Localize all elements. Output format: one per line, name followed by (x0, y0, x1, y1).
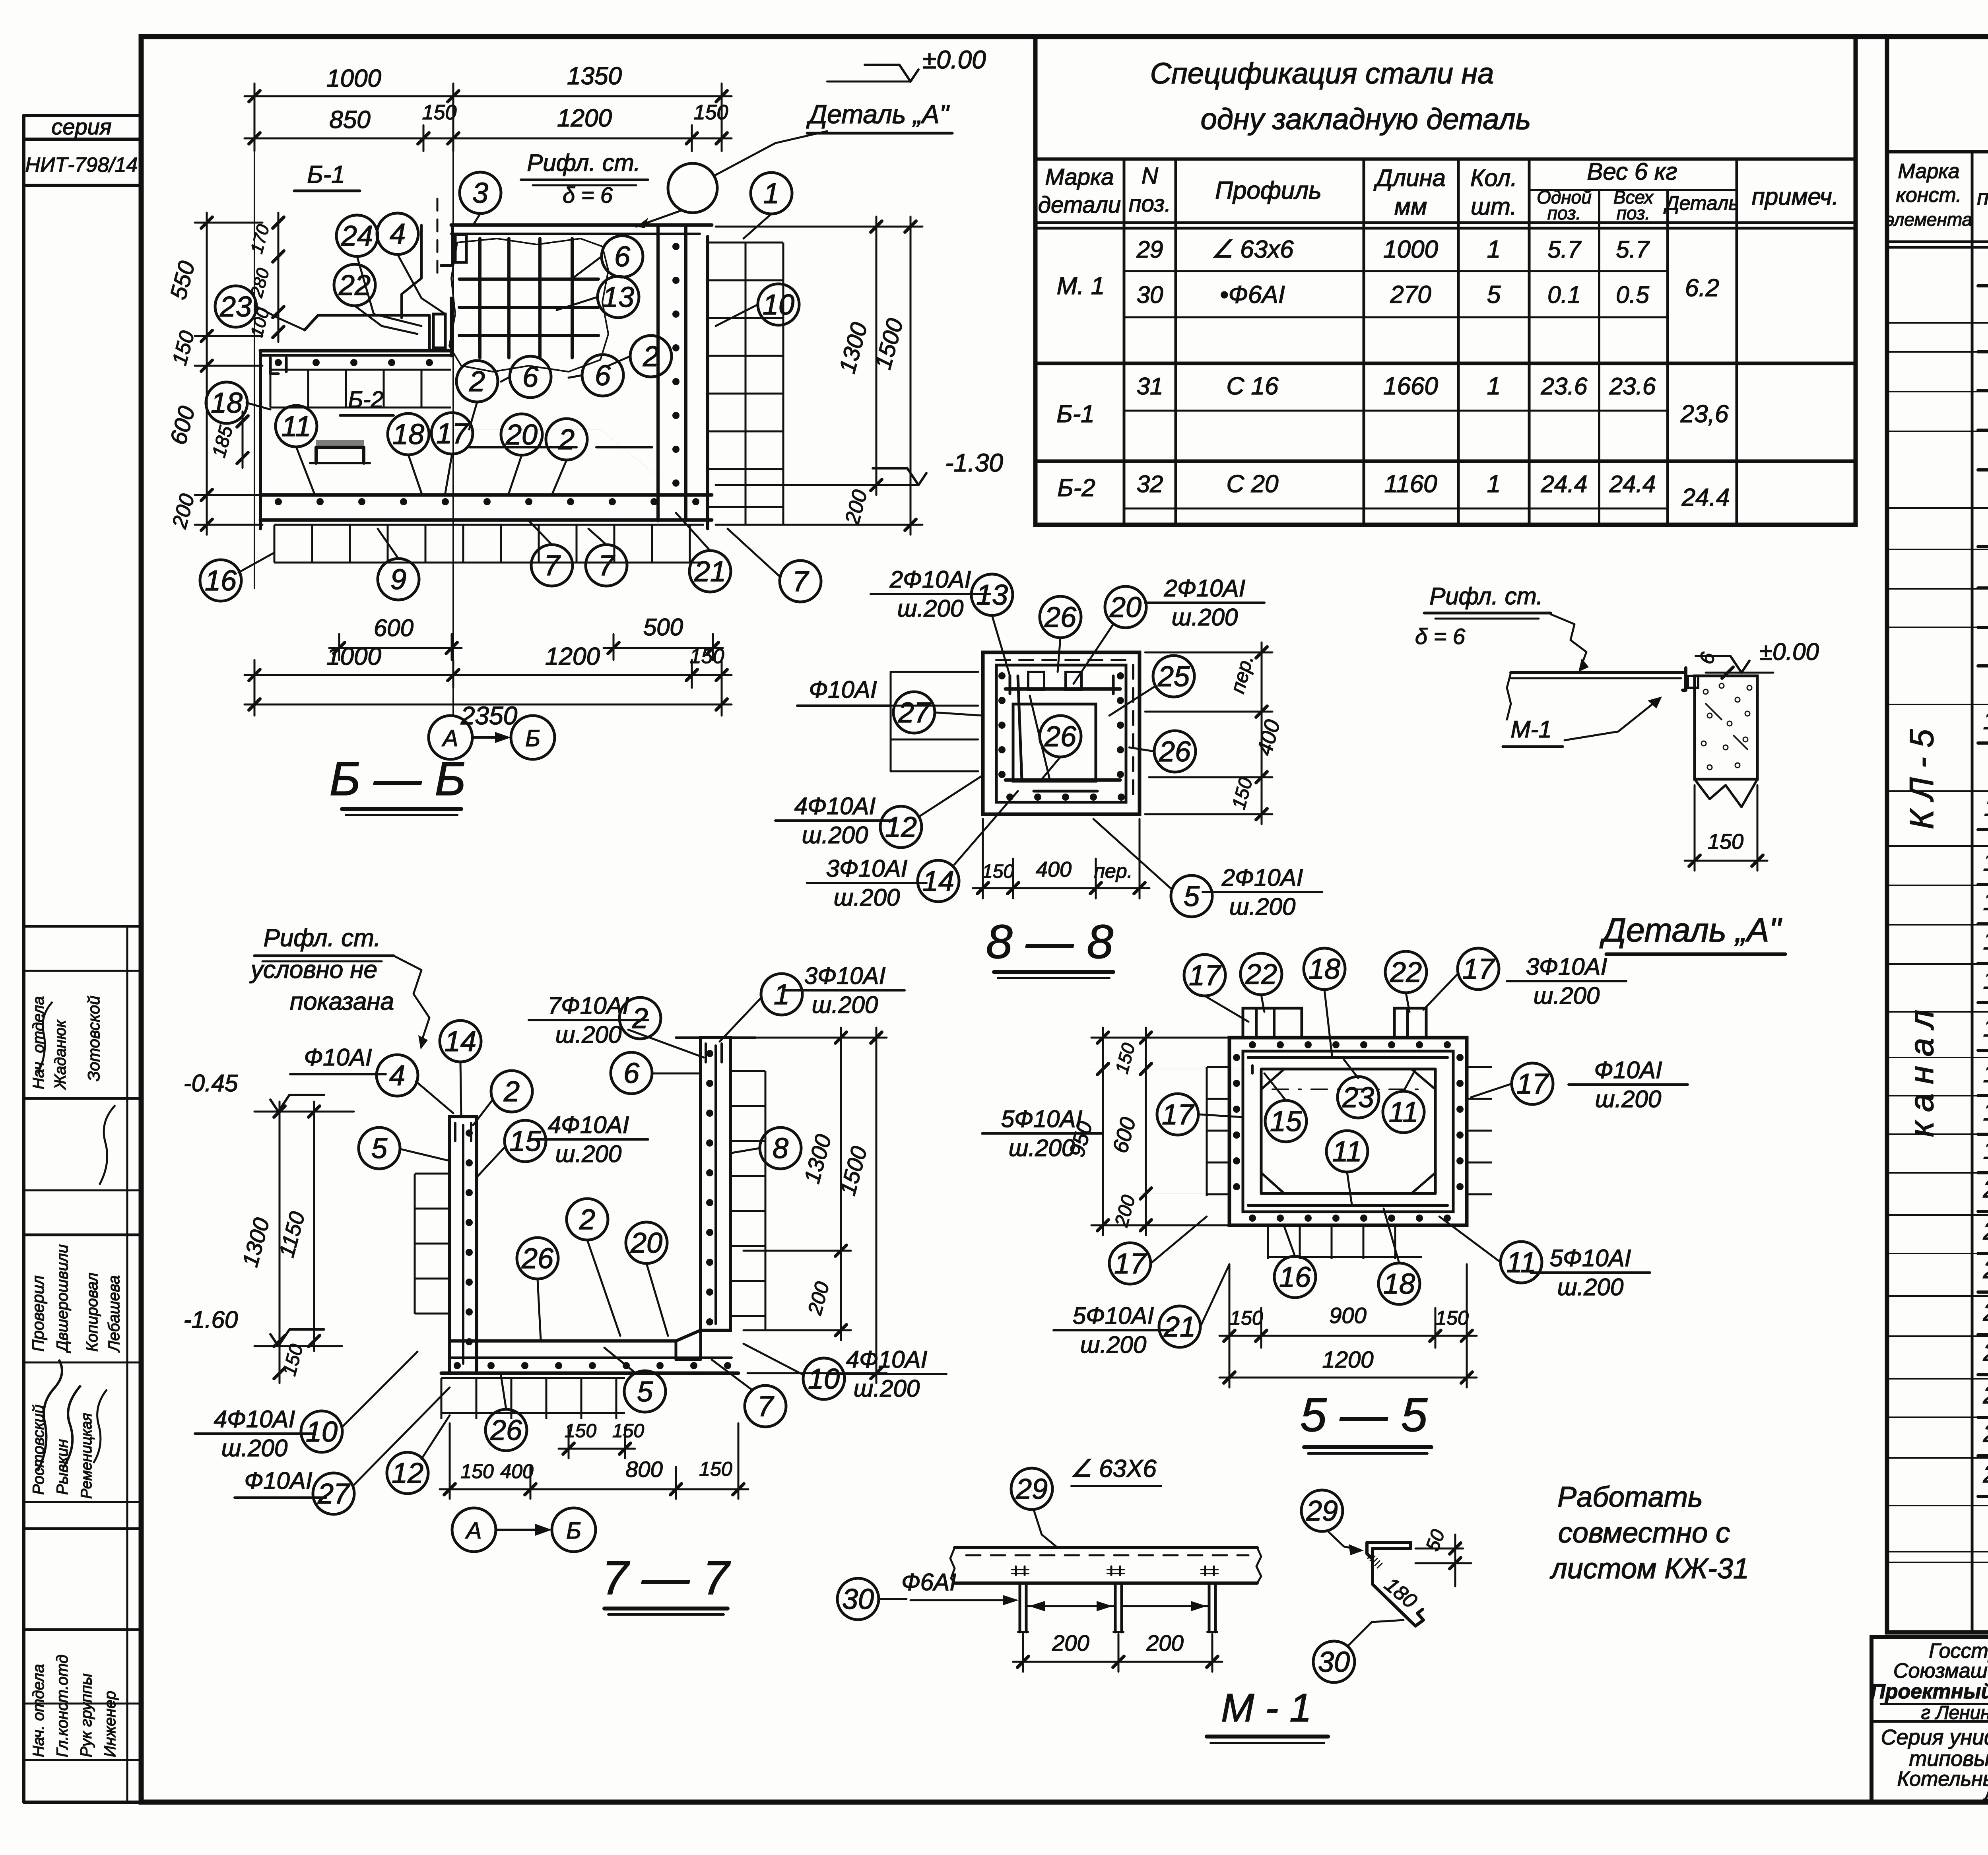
svg-text:13: 13 (602, 281, 634, 313)
svg-text:30: 30 (1318, 1646, 1350, 1678)
5-5 callouts (1184, 955, 1225, 996)
left shelf top (305, 315, 429, 350)
svg-text:30: 30 (1137, 281, 1163, 308)
svg-text:11: 11 (1332, 1136, 1362, 1168)
svg-text:5Ф10АI: 5Ф10АI (1073, 1302, 1154, 1329)
left element hooks (270, 358, 278, 374)
slab hatch below (274, 525, 704, 563)
svg-text:Гл.конст.отд: Гл.конст.отд (54, 1655, 71, 1757)
svg-text:Б: Б (525, 726, 540, 751)
svg-text:1: 1 (1487, 373, 1501, 400)
interior step lines (451, 429, 658, 477)
7-7 bottom dims (440, 1488, 540, 1490)
svg-text:δ = 6: δ = 6 (563, 182, 613, 208)
mesh grid rifl steel (478, 239, 481, 358)
svg-text:2: 2 (643, 341, 659, 373)
5-5 bottom hatch (1268, 1225, 1422, 1259)
bottom interior ties (469, 446, 577, 448)
svg-text:детали: детали (1038, 192, 1121, 218)
svg-text:7: 7 (544, 550, 561, 582)
svg-text:10: 10 (1983, 707, 1988, 735)
svg-text:6.2: 6.2 (1685, 274, 1719, 302)
svg-text:ш.200: ш.200 (812, 992, 878, 1018)
svg-text:270: 270 (1390, 281, 1431, 309)
7-7 right wall rebar (714, 1046, 717, 1324)
svg-text:5 — 5: 5 — 5 (1300, 1388, 1428, 1442)
detail A level mark (1696, 656, 1741, 673)
svg-text:Нач. отдела: Нач. отдела (30, 1664, 47, 1757)
svg-text:1000: 1000 (326, 643, 381, 670)
svg-text:типовых проектов: типовых проектов (1909, 1747, 1988, 1771)
svg-text:δ = 6: δ = 6 (1415, 624, 1466, 649)
svg-text:Двшерошвили: Двшерошвили (54, 1244, 71, 1353)
svg-text:ш.200: ш.200 (1595, 1086, 1662, 1112)
svg-text:Рывкин: Рывкин (54, 1439, 71, 1495)
left dims 550 150 600 200 (206, 213, 208, 535)
7-7 bottom slab (450, 1330, 701, 1341)
svg-text:1160: 1160 (1384, 470, 1437, 498)
svg-text:17: 17 (1162, 1099, 1195, 1131)
dimension line 850 150 1200 150 (245, 138, 732, 140)
svg-text:5.7: 5.7 (1547, 236, 1582, 263)
svg-text:29: 29 (1015, 1473, 1048, 1505)
svg-text:N: N (1142, 163, 1158, 189)
svg-text:500: 500 (643, 614, 683, 640)
8-8 outer box (983, 652, 1140, 814)
svg-text:14: 14 (1983, 927, 1988, 955)
detail A angle (1683, 668, 1686, 690)
svg-text:1200: 1200 (557, 105, 612, 132)
svg-text:совместно с: совместно с (1558, 1517, 1730, 1549)
7-7 left hatch (415, 1174, 450, 1314)
svg-text:200: 200 (1052, 1630, 1089, 1655)
svg-text:2: 2 (503, 1076, 520, 1108)
svg-text:20: 20 (1983, 1176, 1988, 1203)
svg-text:Работать: Работать (1557, 1481, 1703, 1513)
left strip outer (22, 115, 25, 1802)
svg-text:150: 150 (1708, 830, 1743, 854)
svg-text:24.4: 24.4 (1541, 471, 1588, 497)
svg-text:900: 900 (1329, 1303, 1366, 1328)
svg-text:23: 23 (1342, 1082, 1374, 1114)
svg-text:шт.: шт. (1471, 193, 1517, 220)
svg-text:22: 22 (1390, 957, 1422, 988)
svg-text:ш.200: ш.200 (1172, 604, 1238, 631)
5-5 inner chamfers (1261, 1069, 1284, 1089)
hook detail (1301, 1490, 1343, 1531)
svg-text:Зотовской: Зотовской (84, 995, 103, 1081)
svg-text:Ф10АI: Ф10АI (304, 1044, 372, 1071)
svg-text:18: 18 (1383, 1268, 1415, 1300)
svg-text:27: 27 (1983, 1461, 1988, 1488)
svg-text:ш.200: ш.200 (1534, 982, 1600, 1009)
right spec table (1887, 37, 1988, 1632)
svg-text:М - 1: М - 1 (1221, 1686, 1312, 1730)
title block (1872, 1637, 1988, 1802)
hook hatch small (1368, 1554, 1373, 1558)
svg-text:150: 150 (694, 101, 728, 124)
7-7 right hatch (730, 1071, 765, 1330)
M-1 studs (1019, 1583, 1021, 1632)
mid spec table (1035, 37, 1856, 525)
svg-text:-1.30: -1.30 (945, 448, 1003, 477)
svg-text:А: А (442, 726, 458, 751)
svg-text:14: 14 (445, 1026, 476, 1058)
svg-text:Лебашева: Лебашева (105, 1275, 123, 1353)
8-8 inner opening (1013, 704, 1096, 781)
svg-text:Марка: Марка (1045, 164, 1114, 190)
svg-text:2Ф10АI: 2Ф10АI (889, 566, 971, 593)
svg-text:Б-2: Б-2 (1057, 474, 1095, 502)
8-8 left bracket lines (891, 671, 978, 673)
svg-text:1350: 1350 (567, 62, 622, 90)
svg-text:20: 20 (1109, 592, 1142, 623)
5-5 left dims (1102, 1028, 1104, 1235)
svg-text:11: 11 (282, 411, 311, 442)
svg-text:26: 26 (1044, 602, 1077, 633)
svg-text:23.6: 23.6 (1609, 373, 1656, 400)
svg-text:4Ф10АI: 4Ф10АI (794, 793, 876, 819)
8-8 callout leaders (992, 615, 1010, 676)
svg-text:±0.00: ±0.00 (922, 45, 986, 74)
callout leaders B-B (357, 256, 421, 326)
svg-text:Деталь „А": Деталь „А" (806, 99, 950, 129)
cloud boundary of mesh (449, 239, 608, 372)
svg-text:6: 6 (522, 361, 539, 393)
svg-text:Рук группы: Рук группы (78, 1673, 95, 1757)
signature squiggles (38, 1360, 62, 1471)
svg-text:31: 31 (1137, 373, 1163, 400)
svg-text:ш.200: ш.200 (854, 1375, 920, 1402)
svg-text:12: 12 (1983, 849, 1988, 876)
svg-text:0.1: 0.1 (1547, 281, 1580, 308)
svg-text:Б-1: Б-1 (307, 161, 345, 188)
5-5 dots (1249, 1041, 1256, 1048)
svg-text:21: 21 (1163, 1311, 1196, 1343)
svg-text:2Ф10АI: 2Ф10АI (1164, 575, 1246, 602)
5-5 top inner bars (1248, 1056, 1447, 1059)
level mark -1.30 (873, 468, 918, 485)
level mark 0.00 (865, 65, 911, 81)
svg-text:1200: 1200 (545, 643, 600, 670)
svg-text:25: 25 (1157, 661, 1190, 693)
dashed line from plate left (437, 199, 439, 278)
svg-text:18: 18 (1983, 1098, 1988, 1126)
svg-text:11: 11 (1389, 1096, 1419, 1128)
svg-text:400: 400 (500, 1460, 534, 1482)
M-1 spacing arrows (1028, 1605, 1113, 1607)
svg-text:2: 2 (469, 366, 485, 398)
svg-text:9: 9 (390, 564, 406, 596)
svg-text:НИТ-798/14: НИТ-798/14 (25, 153, 138, 177)
svg-text:2: 2 (558, 424, 575, 456)
svg-text:150: 150 (460, 1460, 494, 1482)
svg-text:С 16: С 16 (1227, 373, 1279, 400)
svg-text:17: 17 (1516, 1068, 1549, 1100)
7-7 left wall rebar (462, 1125, 464, 1364)
svg-text:6: 6 (623, 1058, 640, 1089)
svg-text:7: 7 (598, 550, 615, 582)
svg-text:3Ф10АI: 3Ф10АI (1526, 953, 1607, 980)
svg-text:400: 400 (1036, 858, 1072, 881)
svg-text:24: 24 (1983, 1339, 1988, 1366)
bottom slab (260, 493, 712, 497)
8-8 inner diagonal bars (1018, 676, 1022, 779)
svg-text:-1.60: -1.60 (184, 1306, 238, 1333)
svg-text:поз.: поз. (1547, 203, 1581, 223)
svg-text:2: 2 (632, 1003, 648, 1034)
svg-text:1: 1 (774, 979, 790, 1011)
7-7 level -160 (278, 1329, 324, 1346)
callouts B-B (336, 215, 378, 256)
svg-text:Профиль: Профиль (1215, 177, 1322, 204)
detail A balloon (668, 163, 717, 213)
8-8 top bars (1006, 687, 1120, 691)
svg-text:14: 14 (922, 865, 954, 897)
svg-text:поз.: поз. (1617, 203, 1650, 223)
svg-text:4: 4 (390, 218, 406, 250)
series box (24, 114, 141, 117)
svg-text:∠ 63x6: ∠ 63x6 (1211, 236, 1294, 263)
8-8 right dim (1261, 642, 1263, 824)
svg-text:ш.200: ш.200 (1080, 1331, 1147, 1358)
svg-text:23,6: 23,6 (1680, 400, 1729, 428)
svg-text:23: 23 (219, 291, 252, 323)
svg-text:7: 7 (757, 1391, 775, 1422)
svg-text:М. 1: М. 1 (1057, 272, 1105, 300)
bottom dims B-B (329, 647, 462, 649)
svg-text:16: 16 (1279, 1261, 1311, 1293)
svg-text:18: 18 (1309, 953, 1340, 985)
section 5-5 drawing (1229, 1038, 1467, 1225)
svg-text:26: 26 (1159, 736, 1191, 768)
svg-text:5Ф10АI: 5Ф10АI (1550, 1245, 1631, 1271)
svg-text:600: 600 (374, 615, 414, 641)
M-1 phi6 label (837, 1578, 879, 1620)
svg-text:5: 5 (1487, 281, 1501, 309)
svg-text:4Ф10АI: 4Ф10АI (548, 1112, 629, 1138)
svg-text:17: 17 (1189, 960, 1222, 992)
svg-text:5: 5 (637, 1376, 653, 1408)
5-5 bottom dims (1219, 1335, 1477, 1337)
svg-text:-0.45: -0.45 (184, 1070, 238, 1096)
svg-text:18: 18 (211, 387, 243, 419)
left element (260, 349, 451, 353)
svg-text:800: 800 (625, 1457, 662, 1482)
svg-text:1200: 1200 (1322, 1347, 1373, 1373)
axis lines (452, 99, 454, 716)
svg-text:23: 23 (1983, 1299, 1988, 1326)
svg-text:Ф10АI: Ф10АI (244, 1467, 312, 1494)
svg-text:150: 150 (1230, 1307, 1263, 1329)
svg-text:10: 10 (763, 289, 794, 321)
svg-text:26: 26 (1983, 1420, 1988, 1448)
svg-text:к а н а л: к а н а л (1903, 1010, 1940, 1137)
svg-text:листом КЖ-31: листом КЖ-31 (1549, 1553, 1749, 1585)
7-7 slab step right (676, 1330, 701, 1360)
svg-text:29: 29 (1136, 236, 1163, 263)
svg-text:30: 30 (842, 1583, 874, 1615)
svg-text:Рифл. ст.: Рифл. ст. (264, 924, 381, 952)
svg-text:Б: Б (566, 1518, 581, 1544)
svg-text:Ременицкая: Ременицкая (78, 1413, 95, 1499)
svg-text:32: 32 (1137, 471, 1163, 497)
svg-text:13: 13 (1983, 888, 1988, 916)
svg-text:0.5: 0.5 (1616, 281, 1649, 308)
svg-text:22: 22 (1245, 959, 1277, 990)
svg-text:пер.: пер. (1094, 860, 1132, 882)
svg-text:±0.00: ±0.00 (1759, 638, 1819, 665)
svg-text:23.6: 23.6 (1541, 373, 1588, 400)
svg-text:Ф6АI: Ф6АI (901, 1569, 956, 1595)
right wall hatch (708, 243, 783, 525)
svg-text:24: 24 (341, 220, 373, 252)
svg-text:Нач. отдела: Нач. отдела (30, 996, 47, 1089)
svg-text:27: 27 (317, 1478, 351, 1510)
svg-text:15: 15 (1270, 1106, 1302, 1137)
svg-text:1660: 1660 (1383, 373, 1438, 400)
7-7 top of right wall line (676, 1036, 755, 1039)
svg-text:1: 1 (763, 178, 779, 210)
svg-text:19: 19 (1983, 1137, 1988, 1164)
svg-text:Рифл. ст.: Рифл. ст. (527, 149, 640, 176)
svg-text:26: 26 (521, 1243, 554, 1275)
svg-text:Б-2: Б-2 (348, 387, 383, 413)
svg-text:Ф10АI: Ф10АI (809, 676, 877, 703)
M-1 plate drawing (955, 1546, 1257, 1549)
svg-text:Ростовский: Ростовский (30, 1405, 47, 1495)
svg-text:К Л - 5: К Л - 5 (1903, 729, 1940, 829)
M-1 bottom dims (1013, 1661, 1128, 1663)
svg-text:Котельных с котлами: Котельных с котлами (1897, 1768, 1988, 1791)
svg-text:17: 17 (1462, 953, 1495, 985)
svg-text:ш.200: ш.200 (1557, 1274, 1624, 1300)
svg-text:1: 1 (1487, 470, 1501, 498)
svg-text:17: 17 (436, 418, 469, 450)
svg-text:7: 7 (792, 566, 810, 598)
svg-text:ш.200: ш.200 (555, 1141, 622, 1167)
right wall (656, 227, 660, 521)
svg-text:2: 2 (579, 1204, 595, 1236)
svg-text:конст.: конст. (1896, 184, 1961, 207)
svg-text:ш.200: ш.200 (1229, 893, 1296, 920)
svg-text:ш.200: ш.200 (1009, 1135, 1075, 1161)
svg-text:150: 150 (422, 101, 457, 124)
svg-text:150: 150 (1435, 1307, 1469, 1329)
svg-text:150: 150 (982, 861, 1014, 882)
svg-text:12: 12 (885, 811, 917, 843)
svg-text:ш.200: ш.200 (221, 1435, 288, 1461)
axis markers A-B (429, 716, 472, 759)
top dimension line 1000 1350 (245, 95, 732, 97)
svg-text:серия: серия (51, 114, 111, 139)
8-8 bottom dim (973, 887, 1149, 889)
svg-text:Проектный институт N1: Проектный институт N1 (1870, 1680, 1988, 1703)
svg-text:15: 15 (1983, 967, 1988, 994)
svg-text:М-1: М-1 (1510, 716, 1551, 743)
signature table left strip (24, 925, 141, 928)
left element dots (275, 359, 282, 366)
svg-text:150: 150 (699, 1458, 732, 1480)
5-5 side hatch (1207, 1067, 1229, 1196)
svg-text:примеч.: примеч. (1752, 183, 1839, 210)
svg-text:Марка: Марка (1898, 160, 1959, 183)
svg-text:Б-1: Б-1 (1056, 400, 1094, 428)
svg-text:Жаданюк: Жаданюк (52, 1019, 69, 1090)
svg-text:2Ф10АI: 2Ф10АI (1221, 864, 1303, 891)
svg-text:ш.200: ш.200 (555, 1021, 622, 1048)
svg-text:27: 27 (898, 697, 931, 729)
svg-text:21: 21 (1983, 1218, 1988, 1245)
svg-text:•Ф6АI: •Ф6АI (1220, 281, 1285, 309)
svg-text:∠ 63X6: ∠ 63X6 (1070, 1455, 1157, 1482)
5-5 inner opening outline (1261, 1069, 1435, 1193)
7-7 callouts (440, 1021, 481, 1062)
detail A concrete block (1695, 676, 1757, 779)
svg-text:10: 10 (306, 1416, 338, 1448)
7-7 right dims (840, 1028, 842, 1340)
svg-text:8 — 8: 8 — 8 (986, 915, 1113, 968)
svg-text:200: 200 (1146, 1630, 1183, 1655)
svg-text:3Ф10АI: 3Ф10АI (804, 962, 886, 989)
mid table subrow lines (1124, 270, 1668, 272)
detail A squiggle arrow (1551, 614, 1586, 668)
svg-text:12: 12 (392, 1457, 423, 1489)
svg-text:поз.: поз. (1129, 191, 1171, 217)
right wall rebar dots (672, 243, 679, 250)
left inner dims 170 280 100 185 (278, 213, 280, 342)
svg-text:поз.: поз. (1977, 186, 1988, 210)
detail A leader arrow (636, 211, 681, 227)
svg-text:18: 18 (392, 419, 424, 450)
svg-text:ш.200: ш.200 (897, 595, 964, 622)
svg-text:22: 22 (1983, 1256, 1988, 1284)
top plate line (451, 223, 712, 227)
svg-text:21: 21 (694, 556, 726, 588)
svg-text:16: 16 (205, 565, 237, 597)
svg-text:25: 25 (1983, 1382, 1988, 1409)
svg-text:Кол.: Кол. (1470, 165, 1517, 191)
7-7 callout leaders (460, 1062, 461, 1117)
5-5 bottom inner bar (1248, 1204, 1447, 1207)
M-1 weld marks (1015, 1566, 1017, 1575)
svg-text:Серия унифицированных: Серия унифицированных (1881, 1725, 1988, 1749)
svg-text:1: 1 (1487, 236, 1501, 263)
svg-text:Б — Б: Б — Б (330, 752, 466, 805)
svg-text:Проверил: Проверил (29, 1275, 47, 1352)
svg-text:15: 15 (509, 1125, 542, 1157)
right table row lines (1887, 322, 1988, 324)
7-7 right wall (701, 1038, 730, 1330)
svg-text:5: 5 (371, 1133, 388, 1164)
right dims 1300 1500 200 (876, 217, 878, 495)
svg-text:150: 150 (612, 1420, 644, 1442)
svg-text:ш.200: ш.200 (802, 822, 868, 848)
svg-text:850: 850 (329, 106, 370, 134)
svg-text:24.4: 24.4 (1609, 471, 1656, 497)
7-7 left dims (279, 1102, 281, 1383)
mid table group lines (1035, 362, 1856, 365)
8-8 bottom bars (1006, 778, 1120, 782)
svg-text:4Ф10АI: 4Ф10АI (214, 1406, 295, 1432)
svg-text:1000: 1000 (326, 65, 381, 92)
7-7 slab rebar dots (454, 1362, 461, 1369)
svg-text:Деталь: Деталь (1663, 192, 1739, 214)
svg-text:элемента: элемента (1885, 209, 1972, 230)
svg-text:Инженер: Инженер (101, 1691, 119, 1757)
svg-text:4Ф10АI: 4Ф10АI (846, 1346, 928, 1373)
8-8 dashed formwork (1132, 665, 1134, 802)
